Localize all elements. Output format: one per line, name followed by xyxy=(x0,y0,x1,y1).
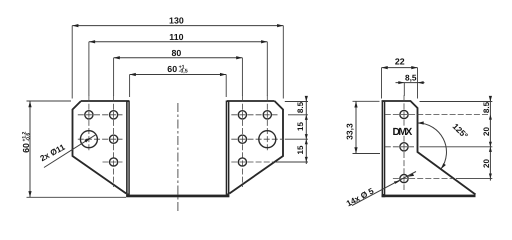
svg-text:110: 110 xyxy=(169,32,183,42)
right flange outline xyxy=(227,101,283,194)
side hole row2 dashed xyxy=(385,146,414,148)
right wall (bent edge, thick) xyxy=(226,101,230,195)
svg-text:60: 60 xyxy=(21,143,31,153)
side view outline xyxy=(382,101,476,195)
svg-text:DMX: DMX xyxy=(392,127,412,138)
svg-text:33,3: 33,3 xyxy=(345,123,355,140)
hole column dashed line x=113.6 xyxy=(113,96,115,187)
dim 80 xyxy=(114,48,243,96)
leader 14x D5 xyxy=(345,172,416,209)
hole column dashed line x=267.3 xyxy=(266,96,268,152)
hole right row3 col1 xyxy=(238,158,246,166)
DMX label xyxy=(393,126,411,136)
angle dim 125 xyxy=(418,121,471,169)
svg-text:15: 15 xyxy=(296,145,305,154)
centerline vertical xyxy=(177,103,179,212)
svg-text:130: 130 xyxy=(169,16,184,26)
side hole 2 xyxy=(400,143,408,151)
hole column dashed line x=242.4 xyxy=(241,96,243,187)
side right dim chain 8.5/20/20 xyxy=(420,96,493,181)
svg-text:-0,5: -0,5 xyxy=(179,69,188,75)
side bottom plate (thick) xyxy=(382,195,476,198)
side hole 3 xyxy=(400,175,408,183)
dim 60 +1/-0.5 xyxy=(130,64,227,97)
svg-text:80: 80 xyxy=(172,48,182,58)
hole left row2 col2 xyxy=(110,135,118,143)
svg-text:20: 20 xyxy=(482,159,491,168)
svg-text:60: 60 xyxy=(167,64,177,74)
hole row dashed line row2 left xyxy=(78,138,123,140)
hole row dashed line row2 right xyxy=(231,138,284,140)
svg-text:8,5: 8,5 xyxy=(405,72,417,82)
svg-text:8.5: 8.5 xyxy=(482,101,491,113)
side hole row3 dashed xyxy=(393,178,452,180)
dim 130 xyxy=(72,16,283,99)
svg-text:20: 20 xyxy=(482,127,491,136)
svg-text:22: 22 xyxy=(395,56,405,66)
svg-text:15: 15 xyxy=(296,122,305,131)
hole left row1 col2 xyxy=(110,111,118,119)
hole row dashed line row3 left xyxy=(103,161,123,163)
hole column dashed line x=88.9 xyxy=(88,96,90,152)
side hole column dashed xyxy=(403,83,405,96)
right dim chain 8.5/15/15 xyxy=(275,96,308,164)
side left bar (sheet edge, thick) xyxy=(382,101,386,198)
left flange outline xyxy=(73,101,130,194)
hole row dashed line row1 right xyxy=(231,114,277,116)
dim 22 xyxy=(382,56,418,98)
leader 2x D11 xyxy=(38,134,96,167)
bottom plate (thick) xyxy=(126,195,229,198)
big hole left (2x D11) xyxy=(80,131,97,148)
dim 110 xyxy=(89,32,267,96)
hole right row1 col2 xyxy=(263,111,271,119)
side hole row1 dashed xyxy=(385,114,489,116)
svg-text:-0,6: -0,6 xyxy=(26,133,32,142)
hole left row1 col1 xyxy=(85,111,93,119)
dim 8.5 top xyxy=(396,72,425,84)
side hole 1 xyxy=(400,110,408,118)
hole left row3 col2 xyxy=(110,158,118,166)
left wall (bent edge, thick) xyxy=(126,101,130,195)
hole right row1 col1 xyxy=(238,111,246,119)
hole row dashed line row1 left xyxy=(78,114,123,116)
svg-text:8.5: 8.5 xyxy=(296,101,305,113)
big hole right (2x D11) xyxy=(259,131,276,148)
hole row dashed line row3 right xyxy=(231,161,274,163)
hole right row2 col1 xyxy=(238,135,246,143)
dim 60 +1.2/-0.6 vertical left xyxy=(21,101,126,197)
dim 33.3 xyxy=(345,101,380,153)
